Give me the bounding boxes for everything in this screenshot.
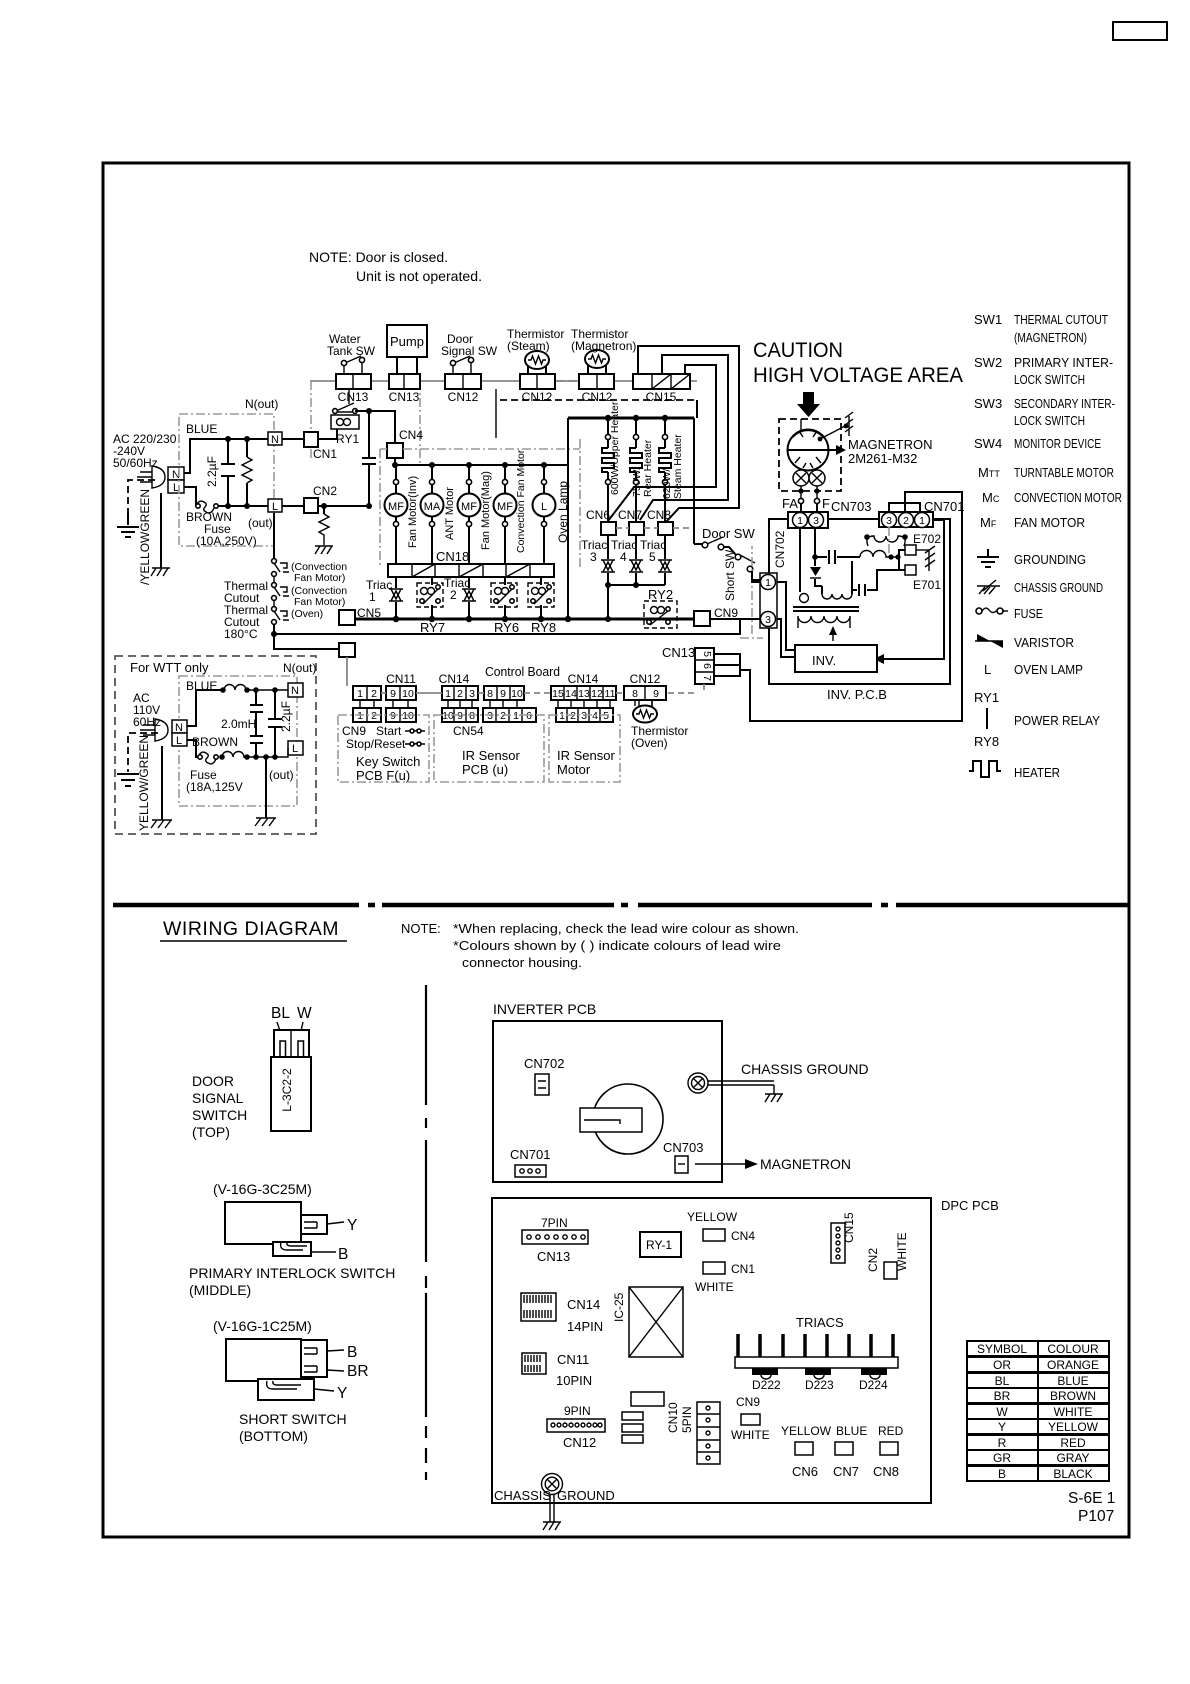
svg-text:10: 10 (402, 688, 414, 700)
svg-text:1: 1 (357, 688, 363, 700)
chassis ground (input) (151, 493, 170, 576)
svg-text:INV.: INV. (812, 653, 836, 668)
svg-text:WHITE: WHITE (695, 1280, 734, 1294)
svg-text:MF: MF (461, 501, 477, 513)
primary interlock switch (middle) (225, 1202, 327, 1256)
wire RY1 to CN4 (355, 411, 395, 443)
cap 2.2uF WTT (268, 690, 282, 757)
connector CN13 (water tank) (336, 374, 371, 389)
svg-text:N: N (271, 434, 279, 446)
svg-text:MAGNETRON: MAGNETRON (760, 1156, 851, 1172)
node L WTT (172, 733, 187, 747)
svg-text:CN701: CN701 (510, 1147, 550, 1162)
triac 1 (389, 577, 403, 619)
svg-text:(out): (out) (269, 768, 294, 782)
svg-text:CHASSIS GROUND: CHASSIS GROUND (1014, 580, 1103, 595)
svg-text:3: 3 (886, 515, 892, 527)
svg-text:2: 2 (500, 710, 506, 722)
svg-text:CN2: CN2 (313, 484, 337, 498)
svg-text:SECONDARY INTER-: SECONDARY INTER- (1014, 396, 1115, 411)
svg-text:Stop/Reset: Stop/Reset (346, 737, 406, 751)
svg-text:IR Sensor: IR Sensor (462, 748, 520, 763)
svg-text:CN14: CN14 (439, 672, 470, 686)
CN701 top jumper (889, 503, 920, 512)
node N (input) (168, 467, 184, 481)
connector row2 keyswitch b (386, 708, 416, 722)
3 pads (622, 1412, 643, 1420)
RY-1 (640, 1232, 681, 1257)
relay RY6 (491, 577, 517, 619)
wire CN15 pin1 to CN8 (638, 346, 739, 522)
svg-text:CN6: CN6 (792, 1464, 818, 1479)
triac 4 (629, 535, 643, 585)
heater 750W/rear (630, 418, 642, 522)
legend heater symbol (969, 761, 1001, 777)
HV arrow (797, 392, 820, 417)
filter dash-dot box (179, 414, 274, 546)
svg-text:CN13: CN13 (338, 390, 369, 404)
node L(out) box (268, 499, 282, 513)
svg-text:CN8: CN8 (647, 508, 671, 522)
svg-text:10PIN: 10PIN (556, 1373, 592, 1388)
svg-text:(MIDDLE): (MIDDLE) (189, 1282, 251, 1298)
cap branch 1 (250, 690, 263, 757)
svg-text:9PIN: 9PIN (564, 1404, 591, 1418)
svg-text:RED: RED (878, 1424, 904, 1438)
svg-text:BROWN: BROWN (192, 735, 238, 749)
connector CN12 (steam) (520, 374, 555, 389)
svg-text:(out): (out) (248, 516, 273, 530)
svg-text:GR: GR (993, 1451, 1011, 1465)
connector CN12 (magnetron) (579, 374, 614, 389)
svg-text:FA: FA (782, 496, 798, 511)
wire door SW feed (694, 400, 697, 544)
svg-text:CN9: CN9 (342, 724, 366, 738)
heater bus (568, 417, 694, 420)
choke coil top (224, 685, 288, 690)
svg-text:PCB F(u): PCB F(u) (356, 768, 410, 783)
wire CN4 to motor bus (394, 458, 396, 465)
svg-text:L: L (292, 743, 298, 755)
mains plug WTT (140, 719, 168, 741)
triac 5 (658, 535, 672, 585)
legend fuse symbol (976, 608, 1008, 614)
svg-text:Rear Heater: Rear Heater (642, 439, 654, 497)
svg-text:(Oven): (Oven) (291, 608, 323, 620)
column divider dashed (425, 985, 427, 1480)
svg-text:Y: Y (337, 1385, 347, 1402)
svg-text:NOTE:: NOTE: (401, 921, 441, 936)
earth dashed WTT (128, 733, 158, 772)
svg-text:CN1: CN1 (731, 1262, 755, 1276)
node N WTT (172, 720, 187, 734)
wire lamp-bus riser (567, 465, 569, 619)
resistor (filter) (242, 439, 252, 506)
chassis ground screw DPC (542, 1474, 563, 1495)
IR sensor motor box (549, 715, 620, 782)
svg-text:BLUE: BLUE (836, 1424, 867, 1438)
door SW (694, 537, 736, 555)
svg-text:SWITCH: SWITCH (192, 1107, 247, 1123)
connector row1 CN14a (442, 686, 478, 700)
svg-text:N: N (291, 685, 299, 697)
capacitor (RY1 output) (362, 408, 376, 509)
svg-text:3: 3 (469, 688, 475, 700)
svg-text:12: 12 (591, 688, 603, 700)
gray dash-dot drop at left of top row (310, 381, 312, 461)
svg-text:CN12: CN12 (630, 672, 661, 686)
INV PCB box (769, 519, 950, 684)
relay RY1 (331, 403, 359, 429)
svg-text:N(out): N(out) (283, 661, 316, 675)
fan blob (593, 1084, 663, 1154)
connector row2 keyswitch a (353, 708, 381, 722)
svg-text:VARISTOR: VARISTOR (1014, 635, 1074, 650)
svg-text:4: 4 (620, 550, 627, 564)
svg-text:CN11: CN11 (386, 672, 416, 686)
wire CN1 to RY1 (318, 429, 337, 439)
svg-text:L: L (176, 735, 182, 747)
svg-text:L: L (541, 501, 547, 513)
short SW (735, 554, 760, 580)
svg-text:W: W (996, 1405, 1008, 1419)
svg-text:CN702: CN702 (524, 1056, 564, 1071)
HV boundary dash-dot (740, 546, 763, 638)
wire CN15 pin3 to CN6 (608, 365, 716, 521)
connector CN6 (601, 522, 616, 535)
svg-text:B: B (998, 1467, 1006, 1481)
svg-text:Convection Fan Motor: Convection Fan Motor (515, 449, 527, 553)
wire CN9 to CN702 pin3 (710, 618, 760, 620)
svg-text:TRIACS: TRIACS (796, 1315, 844, 1330)
svg-text:SW1: SW1 (974, 312, 1002, 327)
connector row2 IR pcb a (442, 708, 478, 722)
thermistor (oven) (633, 700, 657, 723)
svg-text:D224: D224 (859, 1378, 888, 1392)
heater 600W/upper (602, 418, 614, 522)
svg-text:15: 15 (552, 688, 564, 700)
svg-text:3: 3 (581, 710, 587, 722)
triac 3 (601, 535, 615, 585)
schematic border frame (103, 163, 1129, 1537)
connector CN13 (vertical 5/6/7) (695, 648, 714, 684)
relay RY7 (417, 577, 443, 619)
svg-text:D222: D222 (752, 1378, 781, 1392)
magnetron filament (793, 470, 825, 504)
chassis wire WTT left (161, 746, 163, 820)
svg-text:CN11: CN11 (557, 1352, 589, 1367)
svg-text:BR: BR (994, 1389, 1011, 1403)
page corner box (1113, 22, 1167, 40)
door signal SW switch (450, 356, 473, 374)
pump legs (397, 357, 417, 374)
svg-text:CN14: CN14 (568, 672, 599, 686)
svg-text:FUSE: FUSE (1014, 606, 1043, 621)
chassis ground inverter (925, 546, 935, 571)
svg-text:Triac: Triac (444, 576, 470, 590)
svg-text:6: 6 (526, 710, 532, 722)
svg-text:OVEN LAMP: OVEN LAMP (1014, 662, 1083, 677)
svg-text:MA: MA (424, 501, 441, 513)
svg-text:7: 7 (701, 675, 713, 681)
svg-text:7PIN: 7PIN (541, 1216, 568, 1230)
svg-text:CN54: CN54 (453, 724, 484, 738)
choke coil bottom (222, 748, 288, 757)
svg-text:CN18: CN18 (436, 549, 469, 564)
svg-text:Signal SW: Signal SW (441, 344, 498, 358)
connector row1 CN12 (624, 686, 666, 700)
earth dashed wire (128, 480, 155, 523)
thermal cutout (oven) 180C (272, 600, 289, 624)
transformer T1 primary wires (800, 528, 853, 603)
svg-text:2: 2 (450, 588, 457, 602)
svg-text:Motor: Motor (557, 762, 591, 777)
svg-text:CN7: CN7 (833, 1464, 859, 1479)
svg-text:2M261-M32: 2M261-M32 (848, 451, 917, 466)
svg-text:CHASSIS GROUND: CHASSIS GROUND (741, 1061, 869, 1077)
svg-text:L: L (984, 662, 991, 677)
CN11 connector (522, 1353, 546, 1374)
svg-text:Start: Start (376, 724, 402, 738)
svg-text:2: 2 (371, 688, 377, 700)
svg-text:Y: Y (347, 1217, 357, 1234)
svg-text:B: B (338, 1246, 348, 1263)
CN4 pad (703, 1229, 725, 1241)
start switch glyph (405, 729, 425, 733)
svg-text:INVERTER PCB: INVERTER PCB (493, 1001, 596, 1017)
svg-text:MF: MF (388, 501, 404, 513)
relay RY8 (528, 577, 554, 619)
relay RY2 (644, 601, 677, 628)
svg-text:L: L (272, 501, 278, 513)
svg-text:CN13: CN13 (662, 645, 695, 660)
legend chassis ground symbol (977, 580, 1000, 594)
legend grounding symbol (977, 549, 999, 567)
svg-text:Pump: Pump (390, 334, 424, 349)
svg-text:Door SW: Door SW (702, 526, 755, 541)
svg-text:180°C: 180°C (224, 627, 258, 641)
svg-text:DOOR: DOOR (192, 1073, 234, 1089)
svg-text:PRIMARY INTERLOCK SWITCH: PRIMARY INTERLOCK SWITCH (189, 1265, 395, 1281)
svg-text:ANT Motor: ANT Motor (444, 487, 456, 540)
svg-text:BR: BR (347, 1363, 369, 1380)
svg-text:CN13: CN13 (537, 1249, 570, 1264)
svg-text:D223: D223 (805, 1378, 834, 1392)
svg-text:DPC PCB: DPC PCB (941, 1198, 999, 1213)
svg-text:For WTT only: For WTT only (130, 660, 209, 675)
svg-text:CN12: CN12 (563, 1435, 596, 1450)
svg-text:10: 10 (511, 688, 523, 700)
svg-text:IR Sensor: IR Sensor (557, 748, 615, 763)
connector CN703 (788, 512, 828, 528)
wires filament to CN703 (801, 504, 817, 512)
svg-text:E701: E701 (913, 578, 941, 592)
INV module box (795, 645, 877, 672)
CN14 connector (521, 1293, 556, 1321)
connector CN15 (633, 374, 690, 389)
svg-text:CN13: CN13 (389, 390, 420, 404)
oven lamp L (533, 465, 556, 564)
svg-text:5: 5 (603, 710, 609, 722)
svg-text:1: 1 (369, 590, 376, 604)
wire lower box to control row (346, 657, 348, 686)
node L(out) WTT (288, 741, 303, 755)
magnetron tube (788, 419, 849, 471)
svg-text:CN2: CN2 (866, 1248, 880, 1272)
connector CN702 (760, 573, 777, 628)
svg-text:BLUE: BLUE (186, 422, 217, 436)
svg-text:Unit is not operated.: Unit is not operated. (356, 268, 482, 284)
svg-text:(18A,125V: (18A,125V (186, 780, 243, 794)
legend varistor symbol (975, 634, 1003, 648)
connector row1 CN11b (386, 686, 416, 700)
svg-text:SIGNAL: SIGNAL (192, 1090, 244, 1106)
svg-text:CN1: CN1 (313, 447, 337, 461)
svg-text:BROWN: BROWN (1050, 1389, 1096, 1403)
svg-text:(TOP): (TOP) (192, 1124, 230, 1140)
capacitor 2.2uF (221, 439, 235, 506)
svg-text:(V-16G-3C25M): (V-16G-3C25M) (213, 1181, 312, 1197)
wire motor bus to heater bus (567, 418, 569, 465)
svg-text:5PIN: 5PIN (680, 1406, 694, 1433)
magnetron dashed box (779, 419, 841, 491)
fuse F1 (196, 501, 214, 513)
E70x bracket (899, 550, 905, 570)
junction dots filter (225, 436, 231, 442)
wire N to filter top (184, 439, 268, 473)
wire N(out) to CN1 (282, 438, 304, 440)
svg-text:2.2µF: 2.2µF (279, 701, 293, 732)
svg-text:RED: RED (1060, 1436, 1086, 1450)
svg-text:8: 8 (487, 688, 493, 700)
wire screw to chassis sym (708, 1081, 774, 1094)
svg-text:LOCK SWITCH: LOCK SWITCH (1014, 372, 1085, 387)
E702 terminal (905, 545, 916, 555)
thermistor (magnetron) (585, 350, 609, 374)
wire L to bottom (187, 740, 198, 757)
svg-text:Fan Motor(Mag): Fan Motor(Mag) (480, 471, 492, 550)
svg-text:MF: MF (497, 501, 513, 513)
svg-text:1: 1 (919, 515, 925, 527)
svg-text:2: 2 (457, 688, 463, 700)
svg-text:GROUNDING: GROUNDING (1014, 552, 1086, 567)
CN15 connector (831, 1223, 845, 1263)
bus B (274, 619, 740, 634)
svg-text:Control Board: Control Board (485, 664, 560, 679)
svg-text:5: 5 (649, 550, 656, 564)
svg-text:SW2: SW2 (974, 355, 1002, 370)
wire N to top (187, 690, 224, 726)
svg-text:CONVECTION MOTOR: CONVECTION MOTOR (1014, 490, 1122, 505)
svg-text:(V-16G-1C25M): (V-16G-1C25M) (213, 1318, 312, 1334)
water tank switch SW (341, 356, 364, 374)
IC-25 (629, 1287, 683, 1357)
gray dash between thermistor connectors (555, 380, 579, 382)
svg-text:CN15: CN15 (646, 390, 677, 404)
svg-text:CN10: CN10 (666, 1402, 680, 1433)
connector CN18 (388, 564, 554, 577)
svg-text:HIGH VOLTAGE AREA: HIGH VOLTAGE AREA (753, 364, 963, 387)
svg-text:RY2: RY2 (648, 587, 673, 602)
stop switch glyph (405, 742, 425, 746)
bracket CN13 lower box (714, 665, 740, 676)
svg-text:600W/Upper Heater: 600W/Upper Heater (609, 401, 621, 495)
svg-text:PRIMARY INTER-: PRIMARY INTER- (1014, 355, 1113, 370)
svg-text:1: 1 (559, 710, 565, 722)
svg-text:3: 3 (487, 710, 493, 722)
svg-text:INV. P.C.B: INV. P.C.B (827, 687, 887, 702)
wire L to filter bottom (184, 487, 268, 506)
wire L(out) to CN2 (282, 505, 304, 507)
svg-text:1: 1 (513, 710, 519, 722)
capacitor C1 (812, 550, 852, 564)
grounding symbol (117, 513, 139, 537)
svg-text:CN9: CN9 (714, 606, 738, 620)
svg-text:/YELLOWGREEN: /YELLOWGREEN (138, 489, 152, 585)
svg-text:(Magnetron): (Magnetron) (571, 339, 636, 353)
svg-text:COLOUR: COLOUR (1047, 1342, 1099, 1356)
connector CN7 (629, 522, 644, 535)
arrow transformer to INV (832, 630, 834, 641)
svg-text:CN12: CN12 (448, 390, 479, 404)
svg-text:RY8: RY8 (974, 734, 999, 749)
connector row2 IR pcb b (483, 708, 536, 722)
svg-text:2: 2 (903, 515, 909, 527)
svg-text:*When replacing, check the lea: *When replacing, check the lead wire col… (453, 921, 799, 936)
IR sensor PCB box (434, 715, 544, 782)
svg-text:(Oven): (Oven) (631, 736, 668, 750)
gray dash below CN13 (668, 684, 704, 693)
motor bus (395, 464, 568, 466)
filament transformer secondary (864, 527, 908, 556)
svg-text:L-3C2-2: L-3C2-2 (280, 1068, 294, 1112)
svg-text:LOCK SWITCH: LOCK SWITCH (1014, 413, 1085, 428)
connector CN1 (304, 432, 318, 447)
svg-text:2.2µF: 2.2µF (205, 456, 219, 487)
convection fan motor MF (494, 465, 517, 564)
svg-text:GRAY: GRAY (1056, 1451, 1089, 1465)
wire CN13 bracket to CN701 pin2 (740, 492, 962, 721)
magnetron arrow (695, 1163, 745, 1165)
wire triacs to bus (608, 585, 665, 619)
svg-text:B: B (347, 1344, 357, 1361)
svg-text:CN12: CN12 (522, 390, 553, 404)
svg-text:YELLOW/GREEN: YELLOW/GREEN (137, 735, 151, 831)
thermal cutout (convection fan motor) 1 (272, 559, 289, 577)
svg-text:Y: Y (998, 1420, 1006, 1434)
svg-text:WHITE: WHITE (1054, 1405, 1093, 1419)
grounding symbol WTT (117, 774, 139, 786)
lower connector box (CN5 row) (339, 643, 355, 657)
svg-text:YELLOW: YELLOW (781, 1424, 832, 1438)
fan motor MF(inv) (385, 465, 408, 564)
svg-text:14: 14 (565, 688, 577, 700)
svg-text:10: 10 (402, 710, 414, 722)
svg-text:FAN MOTOR: FAN MOTOR (1014, 515, 1085, 530)
svg-text:60Hz: 60Hz (133, 715, 161, 729)
chassis ground screw (inverter) (688, 1073, 708, 1093)
connector CN13 (pump) (389, 374, 420, 389)
svg-text:F: F (822, 496, 830, 511)
connector row2 IR motor (556, 708, 613, 722)
svg-text:1: 1 (357, 710, 363, 722)
svg-text:50/60Hz: 50/60Hz (113, 456, 158, 470)
gray link CN6-CN7-CN8 (616, 527, 692, 529)
svg-text:8: 8 (469, 710, 475, 722)
svg-text:Fan Motor): Fan Motor) (294, 572, 345, 584)
svg-text:8: 8 (632, 688, 638, 700)
black drop below door signal CN12 (495, 389, 497, 438)
